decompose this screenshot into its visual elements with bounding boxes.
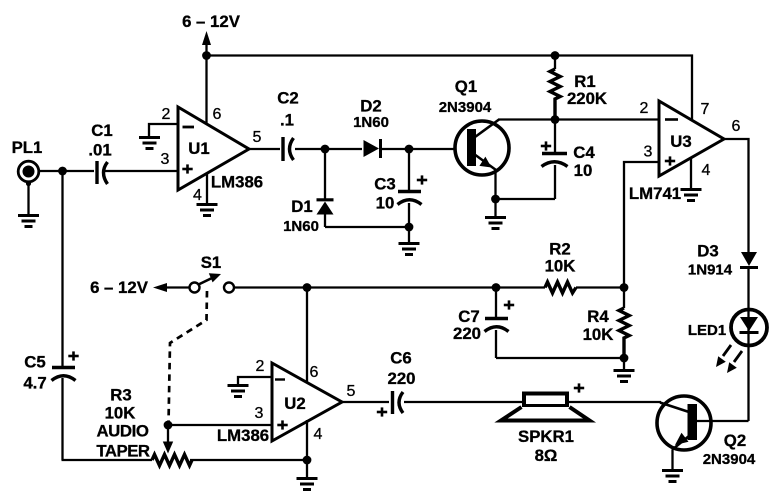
svg-text:SPKR1: SPKR1 bbox=[518, 427, 574, 446]
svg-text:6 – 12V: 6 – 12V bbox=[182, 12, 241, 31]
svg-text:10K: 10K bbox=[105, 404, 136, 423]
svg-text:LM386: LM386 bbox=[217, 426, 269, 445]
svg-text:C4: C4 bbox=[573, 143, 595, 162]
svg-text:Q1: Q1 bbox=[455, 77, 477, 96]
svg-text:Q2: Q2 bbox=[724, 431, 746, 450]
svg-text:.01: .01 bbox=[88, 141, 111, 160]
svg-text:C2: C2 bbox=[277, 89, 298, 108]
svg-text:C5: C5 bbox=[24, 353, 45, 372]
svg-text:LM386: LM386 bbox=[211, 173, 263, 192]
svg-text:D2: D2 bbox=[360, 97, 381, 116]
svg-text:2: 2 bbox=[256, 358, 265, 375]
svg-text:6: 6 bbox=[732, 118, 741, 135]
svg-text:1N60: 1N60 bbox=[353, 114, 389, 131]
svg-text:S1: S1 bbox=[201, 253, 222, 272]
svg-text:LM741: LM741 bbox=[629, 184, 681, 203]
svg-text:LED1: LED1 bbox=[688, 322, 726, 339]
svg-text:5: 5 bbox=[347, 383, 356, 400]
svg-text:U1: U1 bbox=[188, 139, 209, 158]
svg-text:U3: U3 bbox=[670, 132, 691, 151]
svg-text:6: 6 bbox=[213, 106, 222, 123]
svg-text:AUDIO: AUDIO bbox=[96, 422, 148, 441]
svg-text:4: 4 bbox=[193, 187, 202, 204]
svg-text:10K: 10K bbox=[545, 257, 576, 276]
svg-text:10K: 10K bbox=[583, 325, 614, 344]
svg-text:220: 220 bbox=[453, 324, 481, 343]
svg-text:6 – 12V: 6 – 12V bbox=[90, 278, 149, 297]
svg-text:4: 4 bbox=[702, 162, 711, 179]
svg-text:7: 7 bbox=[701, 101, 710, 118]
svg-text:C3: C3 bbox=[374, 175, 395, 194]
svg-text:6: 6 bbox=[310, 364, 319, 381]
svg-text:PL1: PL1 bbox=[12, 138, 43, 157]
svg-text:220: 220 bbox=[388, 369, 416, 388]
svg-text:2: 2 bbox=[640, 100, 649, 117]
svg-text:C1: C1 bbox=[91, 121, 112, 140]
svg-text:8Ω: 8Ω bbox=[535, 446, 558, 465]
svg-text:1N914: 1N914 bbox=[688, 262, 733, 279]
svg-text:.1: .1 bbox=[280, 111, 294, 130]
svg-text:2: 2 bbox=[162, 106, 171, 123]
svg-text:2N3904: 2N3904 bbox=[439, 99, 492, 116]
svg-text:D3: D3 bbox=[697, 242, 718, 261]
svg-text:220K: 220K bbox=[567, 89, 607, 108]
svg-text:10: 10 bbox=[574, 161, 593, 180]
svg-text:10: 10 bbox=[376, 194, 395, 213]
svg-text:2N3904: 2N3904 bbox=[703, 451, 756, 468]
svg-text:5: 5 bbox=[253, 129, 262, 146]
svg-text:R4: R4 bbox=[587, 307, 609, 326]
svg-text:C6: C6 bbox=[390, 349, 411, 368]
svg-text:4.7: 4.7 bbox=[23, 374, 46, 393]
svg-text:R3: R3 bbox=[110, 386, 131, 405]
svg-text:3: 3 bbox=[644, 144, 653, 161]
svg-text:1N60: 1N60 bbox=[283, 218, 319, 235]
svg-text:U2: U2 bbox=[284, 394, 305, 413]
svg-text:3: 3 bbox=[161, 151, 170, 168]
svg-text:D1: D1 bbox=[291, 197, 312, 216]
svg-text:3: 3 bbox=[255, 405, 264, 422]
svg-text:TAPER: TAPER bbox=[96, 442, 150, 461]
svg-text:4: 4 bbox=[314, 426, 323, 443]
